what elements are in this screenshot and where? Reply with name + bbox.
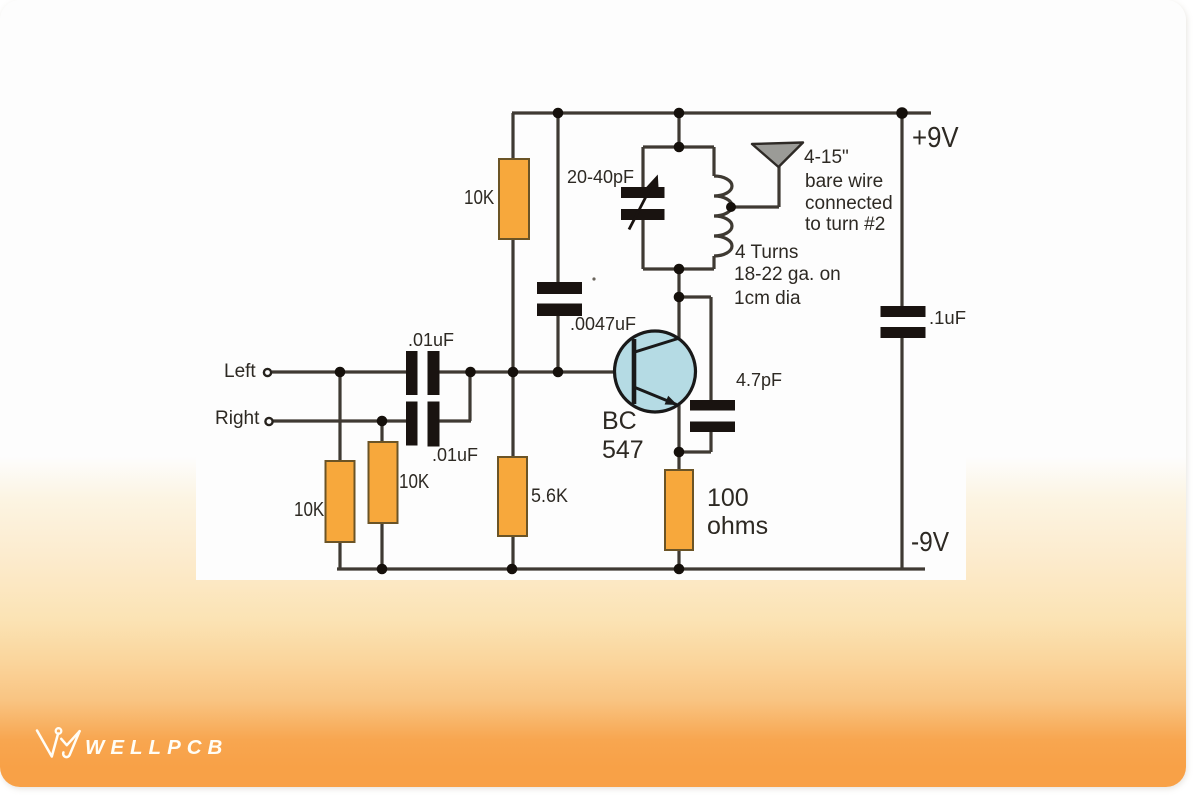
wire C4 to emitter node [679,450,711,453]
wire rail to tank top [677,113,680,147]
label 100 for R5 [707,484,749,512]
capacitor C1 .01uF right plate [428,351,440,395]
label .01uF for C1 [408,329,454,351]
wire right rail upper [900,113,903,308]
junction node tank top [674,142,685,153]
wire emitter column through R5 [677,405,680,569]
logo W mark [30,720,100,765]
wire left column through R2 and R4 [511,113,514,569]
wire C4 branch horizontal top [679,295,711,298]
junction node left line / C2 riser [465,367,476,378]
terminal Right input [265,418,272,425]
junction node coil tap turn 2 [726,202,736,212]
junction node left line / C3 branch [553,367,564,378]
label 5.6K for R4 [531,485,568,507]
transistor Q1 base bar [632,339,637,404]
variable capacitor C5 20-40pF bottom plate [621,209,665,220]
resistor R3 10K middle [369,442,398,523]
transistor Q1 BC547 body [615,331,696,412]
label Left [224,361,256,383]
wire C3 branch upper [556,113,559,284]
inductor L1 4 turns [714,176,732,256]
wire R1 column [338,372,341,569]
transistor Q1 emitter stroke [635,388,677,405]
WELLPCB logo text [85,736,228,760]
capacitor C4 4.7pF bottom plate [690,422,735,433]
label 10K for R1 [294,499,324,521]
wire C4 below plate [709,430,712,452]
junction node top rail / right rail [896,107,908,119]
junction node right line / R3 [377,416,388,427]
junction node tank bottom [674,264,685,275]
wire antenna tap horizontal [731,205,779,208]
label .01uF for C2 [432,444,478,466]
wire tank right upper [712,147,715,176]
wire +9V top rail [512,111,931,114]
junction node emitter / C4 [674,447,685,458]
label antenna connected [805,193,893,215]
variable capacitor C5 arrow shaft [629,183,653,230]
label Right [215,408,259,430]
artifact dot near C3 label [592,277,595,280]
capacitor C1 .01uF left plate [406,351,418,395]
junction node top rail / C3 branch [553,108,564,119]
junction node left line / R2 column [508,367,519,378]
label 10K for R3 [399,471,429,493]
label antenna bare wire [805,171,883,193]
wire tank left lower [641,217,644,269]
terminal Left input [264,369,271,376]
wire C3 branch lower [556,314,559,372]
label 547 [602,436,644,464]
transistor Q1 collector stroke [635,339,678,353]
wire Left line after C1 to transistor base [437,370,633,373]
wire Right input line [273,419,408,422]
resistor R4 5.6K [498,457,527,536]
label -9V [911,531,949,553]
wire tank bottom [643,267,714,270]
resistor R5 100 ohms [665,470,693,550]
variable capacitor C5 20-40pF top plate [621,187,665,198]
junction node collector / C4 [674,292,685,303]
junction node top rail / tank [674,108,685,119]
variable capacitor C5 arrowhead [646,175,659,188]
wire R3 column [380,421,383,569]
label .0047uF for C3 [570,313,636,335]
resistor R2 10K top [499,159,529,239]
resistor R1 10K left [326,461,355,542]
capacitor C3 .0047uF bottom plate [537,304,582,317]
capacitor C6 .1uF top plate [881,306,926,317]
schematic white background [196,76,966,580]
capacitor C2 .01uF right plate [428,402,440,447]
wire tank top [643,145,714,148]
label 4.7pF for C4 [736,369,782,391]
junction node left line / R1 [335,367,346,378]
label 10K for R2 [464,187,494,209]
wire -9V bottom rail [337,567,925,570]
capacitor C4 4.7pF top plate [690,400,735,411]
transistor Q1 emitter arrowhead [665,396,678,405]
label .1uF for C6 [929,307,966,329]
wire tank right lower [712,256,715,269]
wire antenna vertical [777,166,780,207]
label coil 18-22 ga. on [734,264,841,286]
label 20-40pF for C5 [567,166,634,188]
label antenna 4-15" [804,147,849,169]
junction node bottom rail / R3 [377,564,388,575]
wire Left input line [272,370,408,373]
label +9V [912,127,959,149]
label antenna to turn #2 [805,214,885,236]
label coil 4 Turns [735,242,798,264]
junction node bottom rail / R4 [507,564,518,575]
capacitor C6 .1uF bottom plate [881,327,926,338]
wire Right line after C2 [437,419,471,422]
capacitor C2 .01uF left plate [406,402,418,446]
capacitor C3 .0047uF top plate [537,282,582,294]
junction node bottom rail / R5 [674,564,685,575]
wire tank left upper [641,147,644,189]
wire right rail lower [900,336,903,570]
label ohms for R5 [707,512,768,540]
antenna [752,143,803,168]
wire tank to collector [677,269,680,338]
wire C4 branch down to plate [709,297,712,402]
label coil 1cm dia [734,288,801,310]
wire C2 output riser [468,371,471,421]
label BC [602,407,637,435]
